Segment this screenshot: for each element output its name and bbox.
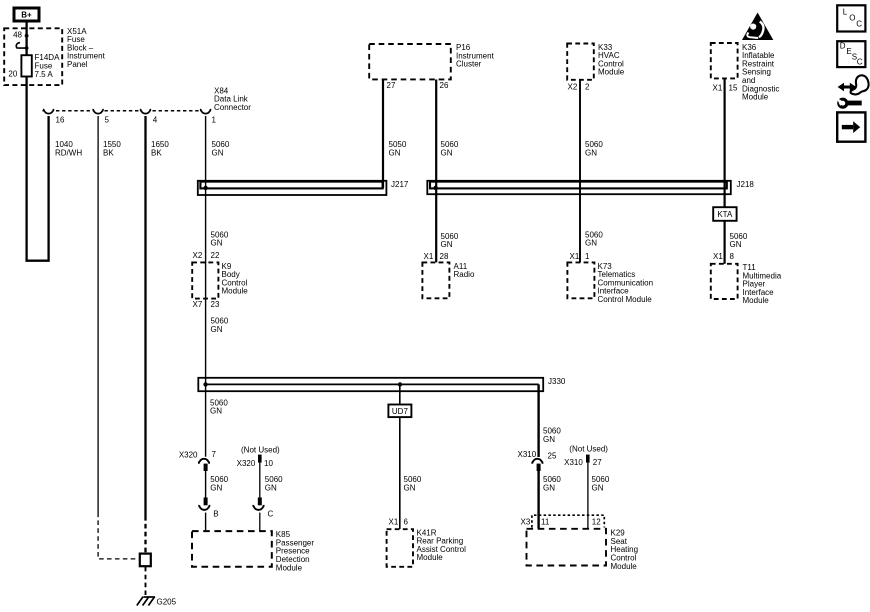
fuse value label F14DA 7.5 A bbox=[35, 53, 61, 79]
connector C male pin bbox=[258, 498, 262, 506]
svg-text:GN: GN bbox=[441, 148, 453, 157]
junction dot J330 left bbox=[203, 382, 207, 386]
X84 terminal cup pin 4 bbox=[141, 109, 151, 114]
wire label 1650 BK bbox=[151, 140, 169, 157]
svg-text:25: 25 bbox=[548, 451, 557, 460]
svg-text:KTA: KTA bbox=[717, 210, 733, 219]
svg-text:GN: GN bbox=[211, 239, 223, 248]
svg-text:D: D bbox=[840, 42, 846, 51]
svg-text:X7: X7 bbox=[193, 300, 203, 309]
A11 label bbox=[454, 262, 475, 279]
svg-text:J330: J330 bbox=[548, 377, 566, 386]
svg-text:(Not Used): (Not Used) bbox=[241, 446, 280, 455]
svg-text:Module: Module bbox=[742, 93, 769, 102]
X84 label bbox=[214, 86, 251, 112]
svg-text:C: C bbox=[268, 510, 274, 519]
X51A label bbox=[67, 27, 106, 69]
T11 pin labels X1 8 bbox=[713, 252, 735, 261]
T11 label bbox=[743, 263, 782, 305]
splice pack J218 bbox=[427, 180, 754, 194]
K9 pin labels X7 23 bbox=[193, 300, 220, 309]
junction dot J330 UD7 bbox=[398, 382, 402, 386]
svg-text:Control Module: Control Module bbox=[598, 295, 653, 304]
connector C female cup bbox=[253, 505, 263, 510]
svg-text:B+: B+ bbox=[21, 11, 32, 20]
svg-text:GN: GN bbox=[404, 483, 416, 492]
K41R label bbox=[417, 528, 467, 562]
K29 label bbox=[611, 529, 639, 571]
K33 HVAC Control Module box bbox=[567, 44, 594, 80]
svg-text:48: 48 bbox=[13, 31, 22, 40]
in-line connector X320 terminal 7 female bbox=[199, 459, 209, 464]
X3 pin labels bbox=[521, 517, 602, 526]
svg-text:GN: GN bbox=[210, 483, 222, 492]
svg-text:GN: GN bbox=[730, 240, 742, 249]
wire 5060 GN J330 to UD7 to K41R bbox=[399, 384, 401, 529]
wire label 5060 GN above K29 bbox=[543, 475, 561, 492]
wire B+ to fuse block bbox=[25, 22, 27, 56]
svg-text:BK: BK bbox=[151, 148, 162, 157]
not used branch X320 terminal 10 bbox=[237, 446, 280, 498]
wire 1550 BK dashed to ground splice bbox=[98, 513, 139, 559]
svg-text:GN: GN bbox=[585, 239, 597, 248]
svg-text:BK: BK bbox=[103, 148, 114, 157]
svg-text:RD/WH: RD/WH bbox=[55, 148, 82, 157]
svg-text:1: 1 bbox=[212, 115, 217, 124]
svg-text:X1: X1 bbox=[424, 252, 434, 261]
airbag warning triangle bbox=[742, 13, 773, 41]
wire label 1040 RD/WH bbox=[55, 140, 82, 157]
X320 7 labels bbox=[179, 450, 217, 460]
wire 5050 GN P16 pin 27 to J217 bbox=[382, 80, 384, 189]
K85 Passenger Presence module box bbox=[192, 531, 272, 567]
svg-text:Module: Module bbox=[222, 287, 249, 296]
svg-text:X2: X2 bbox=[193, 251, 203, 260]
svg-text:20: 20 bbox=[8, 69, 17, 78]
K73 pin labels X1 1 bbox=[570, 252, 591, 261]
wire 5060 GN K33 through J218 to K73 bbox=[579, 80, 581, 263]
X84 terminal cup pin 5 bbox=[93, 109, 103, 114]
K29 Seat Heating Control Module box bbox=[527, 529, 607, 566]
svg-text:Panel: Panel bbox=[67, 60, 88, 69]
wire 1040 RD/WH fuse to DLC pin 16 bbox=[27, 77, 49, 261]
K73 Telematics module box bbox=[567, 262, 594, 298]
svg-text:10: 10 bbox=[264, 459, 273, 468]
fuse F14DA bbox=[21, 55, 31, 76]
svg-text:GN: GN bbox=[543, 435, 555, 444]
svg-text:J217: J217 bbox=[391, 180, 409, 189]
svg-text:2: 2 bbox=[585, 82, 590, 91]
X84 terminal cup pin 1 bbox=[201, 109, 211, 114]
wire label 5060 GN above K41R bbox=[404, 475, 422, 492]
ground G205 bbox=[137, 597, 177, 607]
svg-text:22: 22 bbox=[211, 251, 220, 260]
pin 48 bbox=[13, 31, 28, 40]
wire label 5060 GN not used branch bbox=[265, 475, 283, 492]
X84 data link connector dashed line bbox=[42, 110, 199, 112]
P16 Instrument Cluster module box bbox=[369, 44, 451, 79]
K85 label bbox=[276, 530, 315, 572]
K36 Inflatable Restraint module box bbox=[711, 43, 738, 78]
svg-text:GN: GN bbox=[389, 148, 401, 157]
svg-text:X1: X1 bbox=[570, 252, 580, 261]
svg-text:23: 23 bbox=[211, 300, 220, 309]
svg-text:GN: GN bbox=[211, 325, 223, 334]
junction dot J217 bbox=[203, 186, 207, 190]
wire label 5060 GN above A11 bbox=[441, 232, 459, 249]
svg-text:GN: GN bbox=[210, 407, 222, 416]
connector B female cup bbox=[199, 505, 209, 510]
K9 label bbox=[222, 262, 249, 296]
in-line connector X310 terminal 25 female bbox=[532, 459, 542, 464]
wire 1650 BK from DLC pin 4 bbox=[144, 116, 146, 516]
wire 5060 GN K36 through J218 to KTA bbox=[723, 78, 725, 207]
connector B male pin bbox=[204, 498, 208, 506]
svg-text:27: 27 bbox=[593, 458, 602, 467]
svg-text:X1: X1 bbox=[713, 83, 723, 92]
in-line connector X320 terminal 7 male pin bbox=[204, 464, 208, 471]
wire label 5060 GN above K73 bbox=[585, 230, 603, 247]
splice pack J330 bbox=[198, 377, 566, 391]
K9 pin labels X2 22 bbox=[193, 251, 220, 260]
svg-text:26: 26 bbox=[440, 81, 449, 90]
svg-text:X1: X1 bbox=[389, 518, 399, 527]
svg-text:X310: X310 bbox=[564, 458, 583, 467]
sidebar LOC button bbox=[837, 5, 865, 31]
B+ power feed box bbox=[14, 8, 39, 21]
svg-text:X310: X310 bbox=[518, 450, 537, 459]
terminal clip symbol bbox=[16, 43, 28, 50]
wire 5060 GN X320-7 to connector B bbox=[205, 471, 207, 498]
svg-text:X2: X2 bbox=[568, 82, 578, 91]
sidebar DESC button bbox=[837, 41, 865, 67]
svg-text:G205: G205 bbox=[157, 598, 177, 607]
svg-text:C: C bbox=[857, 57, 863, 66]
svg-text:GN: GN bbox=[441, 240, 453, 249]
sidebar repair icon bbox=[837, 75, 869, 107]
svg-text:UD7: UD7 bbox=[392, 407, 409, 416]
A11 Radio module box bbox=[422, 262, 449, 298]
svg-text:12: 12 bbox=[592, 517, 601, 526]
svg-text:8: 8 bbox=[730, 252, 735, 261]
wire label 5060 GN between connectors bbox=[210, 475, 228, 492]
K73 label bbox=[598, 262, 654, 304]
splice pack J217 bbox=[198, 180, 409, 195]
wire label 5060 GN not used branch bbox=[592, 475, 610, 492]
X310 25 labels bbox=[518, 450, 557, 460]
svg-text:Radio: Radio bbox=[454, 270, 475, 279]
wire label 5060 GN below K9 bbox=[211, 317, 229, 334]
K9 Body Control Module box bbox=[192, 262, 218, 298]
svg-text:(Not Used): (Not Used) bbox=[569, 445, 608, 454]
fuse block X51A dashed box bbox=[4, 28, 62, 85]
wire KTA to T11 bbox=[723, 221, 725, 264]
svg-text:1: 1 bbox=[585, 252, 590, 261]
sidebar next arrow button bbox=[837, 112, 865, 141]
svg-text:15: 15 bbox=[729, 83, 738, 92]
svg-text:X3: X3 bbox=[521, 517, 531, 526]
wire connector C to K85 bbox=[259, 513, 261, 532]
svg-text:X1: X1 bbox=[713, 252, 723, 261]
svg-text:16: 16 bbox=[56, 115, 65, 124]
junction dot J218 bbox=[433, 186, 437, 190]
svg-text:Cluster: Cluster bbox=[456, 60, 482, 69]
K41R Rear Parking Assist module box bbox=[387, 529, 413, 567]
K41R pin labels X1 6 bbox=[389, 518, 409, 527]
svg-text:27: 27 bbox=[387, 81, 396, 90]
X84 terminal cup pin 16 bbox=[44, 109, 54, 114]
wire 5060 GN P16 pin 26 through J218 to A11 bbox=[435, 80, 437, 263]
A11 pin labels X1 28 bbox=[424, 252, 449, 261]
svg-text:C: C bbox=[856, 20, 862, 29]
wire 5060 GN from DLC pin 1 down through J217, K9, J330 bbox=[205, 116, 207, 457]
wire label 5060 GN above K9 bbox=[211, 230, 229, 247]
svg-text:Module: Module bbox=[276, 563, 303, 572]
wire label 5050 GN bbox=[389, 140, 407, 157]
svg-text:X320: X320 bbox=[237, 459, 256, 468]
wire 5060 GN J330 right branch to X310 bbox=[537, 384, 539, 457]
in-line connector X310 terminal 25 male pin bbox=[537, 464, 541, 471]
svg-text:Module: Module bbox=[417, 553, 444, 562]
K36 label bbox=[742, 43, 779, 102]
wire 1650 BK dashed to ground splice bbox=[144, 516, 146, 553]
not used branch X310 terminal 27 bbox=[564, 445, 608, 529]
svg-text:7: 7 bbox=[212, 450, 217, 459]
P16 label bbox=[456, 43, 495, 69]
wire label 5060 GN bbox=[585, 140, 603, 157]
svg-text:6: 6 bbox=[404, 518, 409, 527]
wire label 5060 GN below J330 left bbox=[210, 398, 228, 415]
svg-text:GN: GN bbox=[543, 483, 555, 492]
wire 5060 GN X310 to K29 pin 11 bbox=[537, 471, 539, 529]
wire label 5060 GN bbox=[441, 140, 459, 157]
svg-text:X320: X320 bbox=[179, 451, 198, 460]
wire label 5060 GN bbox=[730, 232, 748, 249]
svg-text:Connector: Connector bbox=[214, 103, 251, 112]
svg-text:L: L bbox=[843, 8, 848, 17]
wire 1550 BK from DLC pin 5 bbox=[97, 116, 99, 513]
svg-text:Module: Module bbox=[611, 562, 638, 571]
svg-text:GN: GN bbox=[212, 148, 224, 157]
dashed wire splice to ground bbox=[145, 567, 147, 595]
wire label 5060 GN at DLC pin 1 bbox=[212, 140, 230, 157]
UD7 option box bbox=[388, 405, 411, 418]
svg-text:28: 28 bbox=[440, 252, 449, 261]
K29 connector X3 strip bbox=[532, 515, 604, 527]
svg-text:GN: GN bbox=[265, 483, 277, 492]
T11 Multimedia Player module box bbox=[711, 264, 738, 299]
wire label 5060 GN above X310 bbox=[543, 427, 561, 444]
svg-text:O: O bbox=[849, 13, 855, 22]
svg-text:4: 4 bbox=[153, 115, 158, 124]
K36 pin labels X1 15 bbox=[713, 83, 738, 92]
wire label 1550 BK bbox=[103, 140, 121, 157]
svg-text:5: 5 bbox=[105, 115, 110, 124]
K33 pin labels X2 2 bbox=[568, 82, 591, 91]
wire connector B to K85 bbox=[205, 513, 207, 532]
K33 label bbox=[598, 43, 625, 77]
svg-text:11: 11 bbox=[541, 517, 550, 526]
svg-text:Module: Module bbox=[743, 296, 770, 305]
svg-text:Module: Module bbox=[598, 68, 625, 77]
svg-text:B: B bbox=[213, 510, 218, 519]
KTA option box bbox=[713, 207, 736, 221]
svg-text:7.5 A: 7.5 A bbox=[35, 70, 54, 79]
ground splice block bbox=[140, 554, 151, 567]
svg-text:GN: GN bbox=[592, 483, 604, 492]
svg-text:J218: J218 bbox=[737, 180, 755, 189]
svg-text:GN: GN bbox=[585, 148, 597, 157]
